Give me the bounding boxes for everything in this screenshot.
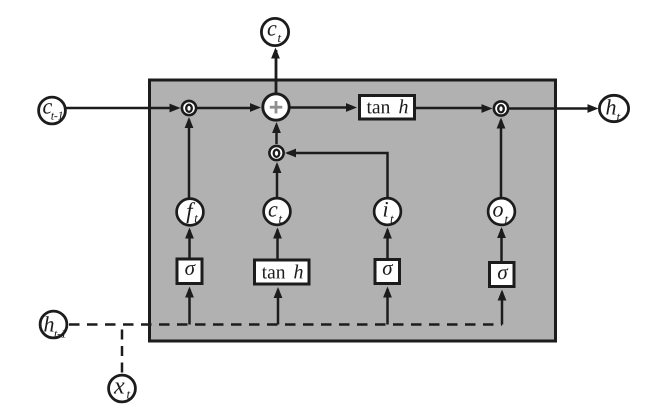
wire: left Hadamard to plus (197, 103, 261, 112)
wire: riser from recurrent line to sigma3 (498, 290, 507, 325)
node c_{t-1} (39, 97, 66, 124)
wire: plus up to c_t output (271, 48, 280, 94)
node h_{t-1} (40, 311, 67, 338)
gate node i_t (374, 198, 401, 225)
gate node o_t (488, 198, 515, 225)
sigma box 1 (177, 259, 202, 284)
wire: dashed drop to x_t (121, 330, 124, 374)
wire: right Hadamard to h_t (509, 104, 599, 113)
right Hadamard node (494, 101, 508, 115)
sigma box 2 (375, 260, 400, 284)
node h_t (599, 95, 628, 121)
wire: sigma2 to i_t (383, 228, 392, 259)
wire: i_t up and left to mid Hadamard (285, 149, 388, 198)
wire: candidate c_t up to mid Hadamard (273, 162, 282, 198)
wire: riser from recurrent line to sigma1 (185, 287, 194, 325)
mid Hadamard node (269, 146, 283, 160)
sigma box 3 (490, 263, 515, 287)
wire: riser from recurrent line to tanh2 (274, 287, 283, 325)
wire: tanh box to right Hadamard (416, 104, 493, 113)
wire: plus to tanh box (290, 103, 357, 112)
left Hadamard node (182, 101, 196, 115)
tanh box (bottom) (255, 260, 310, 284)
wire: o_t up to right Hadamard (497, 118, 506, 198)
LSTM cell body (gray box) (150, 80, 556, 341)
wire: mid Hadamard up to plus (272, 122, 281, 144)
wire: tanh2 to candidate c_t (273, 228, 282, 259)
wire: sigma1 to f_t (185, 228, 194, 258)
tanh box (top) (360, 96, 415, 120)
node c_t (top output) (261, 18, 288, 45)
wire: riser from recurrent line to sigma2 (383, 287, 392, 325)
wire: sigma3 to o_t (497, 227, 506, 261)
plus node (263, 94, 289, 120)
gate node candidate c_t (264, 198, 291, 225)
gate node f_t (177, 199, 204, 226)
node x_t (109, 375, 136, 402)
wire: dashed recurrent h_{t-1} line (69, 323, 502, 326)
wire: f_t up to left Hadamard (185, 117, 194, 198)
wire: c_{t-1} to left Hadamard (66, 104, 181, 113)
